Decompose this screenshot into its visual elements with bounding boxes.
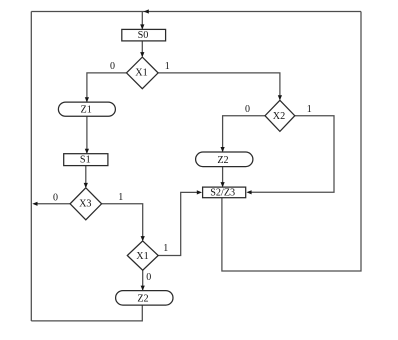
wire S0 to X1 [141, 41, 143, 56]
branch label 1 at X2 [307, 104, 312, 115]
output oval Z2 upper [196, 152, 253, 167]
wire second X1 branch 1 (right, up, right into S2/Z3 left side) [158, 192, 198, 255]
state box S0 [122, 29, 166, 41]
svg-text:S0: S0 [138, 30, 149, 41]
wire X1 branch 0 (left then down to Z1) [87, 73, 127, 102]
svg-text:Z1: Z1 [81, 104, 92, 115]
svg-text:S1: S1 [80, 154, 91, 165]
branch label 1 at second X1 [163, 243, 168, 254]
decision diamond X3 [70, 188, 102, 220]
arrowhead into top junction (pointing left) [144, 9, 149, 13]
wire bottom loop (Z2 bottom, down, left to left rail) [31, 305, 142, 321]
wire X3 branch 1 (right then down to second X1) [102, 204, 143, 241]
wire X1 branch 1 (right then down to X2) [158, 73, 280, 100]
label X3 [79, 199, 91, 210]
svg-text:X2: X2 [273, 111, 285, 122]
wire left feedback vertical (x=31, top y=11 to bottom y=321) [30, 12, 32, 322]
wire X2 branch 1 (right, down, left into S2/Z3 right side) [251, 116, 335, 193]
arrowhead into S2/Z3 right side (pointing left) [246, 190, 251, 194]
arrowhead into X3 (pointing down) [84, 183, 88, 188]
wire X3 branch 0 (left into left rail) [37, 203, 70, 205]
label S0 [138, 30, 149, 41]
arrowhead into S0 (pointing down) [140, 24, 144, 29]
arrowhead into S1 (pointing down) [85, 149, 89, 154]
label X1 second [136, 251, 148, 262]
label S2/Z3 [210, 187, 235, 198]
arrowhead into second X1 (pointing down) [141, 236, 145, 241]
arrowhead X3 branch 0 into left rail (pointing left) [32, 202, 37, 206]
svg-text:1: 1 [163, 243, 168, 254]
wire X2 branch 0 (left then down to Z2) [223, 116, 265, 152]
svg-text:0: 0 [53, 192, 58, 203]
label X1 [135, 68, 147, 79]
wire Z1 to S1 [86, 116, 88, 153]
branch label 0 at X1 [110, 61, 115, 72]
wire into S0 (junction at top down into S0) [141, 12, 143, 29]
label X2 [273, 111, 285, 122]
label Z1 [81, 104, 92, 115]
decision diamond X1 [127, 57, 159, 89]
decision diamond X2 [265, 100, 295, 131]
output oval Z1 [58, 102, 115, 116]
svg-text:0: 0 [245, 104, 250, 115]
svg-text:1: 1 [165, 61, 170, 72]
wire right feedback (S2/Z3 bottom, down, right, up right rail x=361) [222, 12, 361, 272]
branch label 0 at X3 [53, 192, 58, 203]
svg-text:Z2: Z2 [217, 155, 228, 166]
svg-text:Z2: Z2 [137, 294, 148, 305]
svg-text:0: 0 [146, 272, 151, 283]
arrowhead into lower Z2 (pointing down) [141, 286, 145, 291]
svg-text:1: 1 [307, 104, 312, 115]
label S1 [80, 154, 91, 165]
branch label 0 at X2 [245, 104, 250, 115]
svg-text:1: 1 [118, 192, 123, 203]
decision diamond X1 second [127, 241, 158, 270]
arrowhead into S2/Z3 top (pointing down) [221, 182, 225, 187]
wire S1 to X3 [85, 166, 87, 187]
arrowhead into X2 (pointing down) [278, 95, 282, 100]
wire Z2 to S2/Z3 [222, 167, 224, 187]
svg-text:X3: X3 [79, 199, 91, 210]
state box S2/Z3 [203, 187, 246, 198]
svg-text:X1: X1 [136, 251, 148, 262]
svg-text:X1: X1 [135, 68, 147, 79]
svg-text:0: 0 [110, 61, 115, 72]
branch label 0 at second X1 [146, 272, 151, 283]
arrowhead into Z1 (pointing down) [85, 97, 89, 102]
label Z2 upper [217, 155, 228, 166]
label Z2 lower [137, 294, 148, 305]
branch label 1 at X1 [165, 61, 170, 72]
arrowhead into upper Z2 (pointing down) [221, 147, 225, 152]
state box S1 [64, 154, 108, 166]
branch label 1 at X3 [118, 192, 123, 203]
arrowhead into S2/Z3 left side (pointing right) [197, 190, 202, 194]
output oval Z2 lower [116, 291, 173, 306]
svg-text:S2/Z3: S2/Z3 [210, 187, 235, 198]
wire second X1 branch 0 (down to lower Z2) [142, 270, 144, 290]
wire top horizontal (y=11, from left rail to right rail) [31, 11, 361, 13]
arrowhead into X1 (pointing down) [140, 52, 144, 57]
